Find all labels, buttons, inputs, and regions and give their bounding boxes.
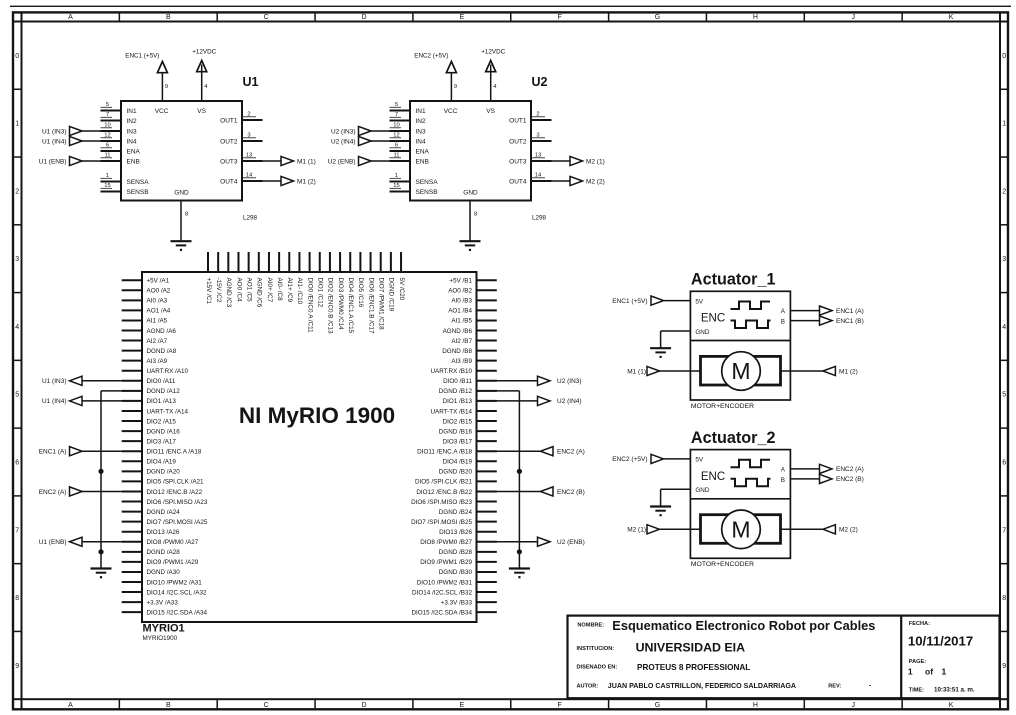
svg-text:+12VDC: +12VDC bbox=[192, 49, 216, 56]
svg-text:IN1: IN1 bbox=[416, 108, 427, 115]
svg-text:+3.3V /A33: +3.3V /A33 bbox=[147, 599, 179, 606]
svg-text:DIO12 /ENC.B /B22: DIO12 /ENC.B /B22 bbox=[416, 489, 472, 496]
svg-text:DIO3 /B17: DIO3 /B17 bbox=[443, 438, 473, 445]
svg-text:5: 5 bbox=[1002, 392, 1006, 399]
svg-text:IN3: IN3 bbox=[127, 128, 138, 135]
svg-text:DIO11 /ENC.A /A18: DIO11 /ENC.A /A18 bbox=[147, 449, 202, 456]
svg-text:K: K bbox=[949, 14, 954, 21]
svg-text:ENA: ENA bbox=[416, 148, 430, 155]
svg-text:IN4: IN4 bbox=[416, 138, 427, 145]
svg-text:AI0 /B3: AI0 /B3 bbox=[451, 298, 472, 305]
svg-text:DIO1 /B13: DIO1 /B13 bbox=[443, 398, 473, 405]
svg-text:DGND /B8: DGND /B8 bbox=[442, 348, 472, 355]
svg-text:of: of bbox=[925, 667, 933, 677]
svg-text:DIO9 /PWM1 /B29: DIO9 /PWM1 /B29 bbox=[420, 559, 472, 566]
svg-text:DGND /A8: DGND /A8 bbox=[147, 348, 177, 355]
svg-text:M2 (2): M2 (2) bbox=[839, 527, 858, 534]
svg-text:9: 9 bbox=[1002, 663, 1006, 670]
svg-text:GND: GND bbox=[695, 487, 709, 494]
svg-text:U1 (ENB): U1 (ENB) bbox=[39, 158, 67, 165]
svg-text:DIO14 /I2C.SCL /B32: DIO14 /I2C.SCL /B32 bbox=[412, 589, 472, 596]
svg-text:3: 3 bbox=[15, 256, 19, 263]
svg-text:OUT2: OUT2 bbox=[220, 138, 238, 145]
svg-text:GND: GND bbox=[695, 329, 709, 336]
svg-text:SENSB: SENSB bbox=[416, 189, 438, 196]
svg-text:DGND /B20: DGND /B20 bbox=[439, 469, 473, 476]
svg-text:DGND /C19: DGND /C19 bbox=[388, 278, 395, 312]
svg-text:Actuator_2: Actuator_2 bbox=[691, 429, 776, 447]
svg-text:AO1 /C5: AO1 /C5 bbox=[245, 278, 252, 303]
svg-text:8: 8 bbox=[1002, 595, 1006, 602]
svg-text:DIO0 /A11: DIO0 /A11 bbox=[147, 378, 176, 385]
svg-text:ENB: ENB bbox=[127, 158, 140, 165]
svg-text:SENSB: SENSB bbox=[127, 189, 149, 196]
svg-text:Esquematico Electronico Robot: Esquematico Electronico Robot por Cables bbox=[612, 618, 875, 633]
svg-text:1: 1 bbox=[942, 667, 947, 677]
svg-text:ENC: ENC bbox=[701, 471, 725, 483]
svg-text:+12VDC: +12VDC bbox=[481, 49, 505, 56]
svg-text:0: 0 bbox=[1002, 53, 1006, 60]
svg-text:MYRIO1: MYRIO1 bbox=[143, 623, 185, 635]
svg-text:AI2 /B7: AI2 /B7 bbox=[451, 338, 472, 345]
svg-text:-15V /C2: -15V /C2 bbox=[215, 278, 222, 303]
svg-text:IN3: IN3 bbox=[416, 128, 427, 135]
svg-text:AI0 /A3: AI0 /A3 bbox=[147, 298, 168, 305]
svg-text:DIO2 /ENC0.B /C13: DIO2 /ENC0.B /C13 bbox=[327, 278, 334, 334]
svg-text:U1: U1 bbox=[243, 75, 259, 89]
svg-text:ENC1 (A): ENC1 (A) bbox=[39, 449, 67, 456]
svg-text:INSTITUCION:: INSTITUCION: bbox=[577, 646, 615, 652]
svg-text:DIO3 /PWM0 /C14: DIO3 /PWM0 /C14 bbox=[337, 278, 344, 331]
svg-text:ENB: ENB bbox=[416, 158, 429, 165]
svg-text:OUT2: OUT2 bbox=[509, 138, 527, 145]
svg-text:DIO8 /PWM0 /B27: DIO8 /PWM0 /B27 bbox=[420, 539, 472, 546]
svg-text:AI2 /A7: AI2 /A7 bbox=[147, 338, 168, 345]
svg-text:8: 8 bbox=[15, 595, 19, 602]
svg-text:DIO2 /B15: DIO2 /B15 bbox=[443, 418, 473, 425]
svg-text:5V: 5V bbox=[695, 298, 704, 305]
svg-text:VS: VS bbox=[486, 108, 495, 115]
svg-text:MOTOR+ENCODER: MOTOR+ENCODER bbox=[691, 403, 754, 410]
svg-text:K: K bbox=[949, 702, 954, 709]
svg-text:AI3 /B9: AI3 /B9 bbox=[451, 358, 472, 365]
svg-text:ENC1 (A): ENC1 (A) bbox=[836, 308, 864, 315]
svg-text:MYRIO1900: MYRIO1900 bbox=[143, 635, 178, 642]
svg-text:SENSA: SENSA bbox=[127, 179, 150, 186]
svg-text:H: H bbox=[753, 702, 758, 709]
svg-text:U2 (IN3): U2 (IN3) bbox=[557, 378, 582, 385]
svg-text:U2 (ENB): U2 (ENB) bbox=[557, 539, 585, 546]
svg-text:NI MyRIO 1900: NI MyRIO 1900 bbox=[239, 403, 395, 428]
svg-text:DIO13 /A26: DIO13 /A26 bbox=[147, 529, 180, 536]
svg-text:U2 (ENB): U2 (ENB) bbox=[328, 158, 356, 165]
svg-text:2: 2 bbox=[1002, 188, 1006, 195]
svg-text:A: A bbox=[68, 702, 73, 709]
svg-text:L298: L298 bbox=[243, 215, 258, 222]
svg-text:AI1 /A5: AI1 /A5 bbox=[147, 318, 168, 325]
svg-text:FECHA:: FECHA: bbox=[909, 621, 930, 627]
svg-text:M1 (1): M1 (1) bbox=[297, 158, 316, 165]
svg-text:DGND /A24: DGND /A24 bbox=[147, 509, 181, 516]
svg-text:DGND /A16: DGND /A16 bbox=[147, 428, 181, 435]
svg-text:DGND /B24: DGND /B24 bbox=[439, 509, 473, 516]
svg-text:M1 (1): M1 (1) bbox=[627, 368, 646, 375]
svg-text:AO1 /B4: AO1 /B4 bbox=[448, 308, 472, 315]
svg-text:DIO6 /ENC1.B /C17: DIO6 /ENC1.B /C17 bbox=[367, 278, 374, 334]
svg-text:ENC1 (+5V): ENC1 (+5V) bbox=[612, 298, 647, 305]
svg-text:DGND /B28: DGND /B28 bbox=[439, 549, 473, 556]
svg-text:5V /C20: 5V /C20 bbox=[398, 278, 405, 301]
svg-text:+5V /B1: +5V /B1 bbox=[449, 278, 472, 285]
svg-text:1: 1 bbox=[908, 667, 913, 677]
svg-text:7: 7 bbox=[15, 527, 19, 534]
svg-text:DIO11 /ENC.A /B18: DIO11 /ENC.A /B18 bbox=[417, 449, 472, 456]
svg-text:AUTOR:: AUTOR: bbox=[577, 684, 599, 690]
svg-text:ENC2 (A): ENC2 (A) bbox=[557, 449, 585, 456]
svg-text:DIO10 /PWM2 /A31: DIO10 /PWM2 /A31 bbox=[147, 579, 203, 586]
svg-text:OUT1: OUT1 bbox=[220, 117, 238, 124]
svg-text:0: 0 bbox=[15, 53, 19, 60]
svg-text:DGND /A12: DGND /A12 bbox=[147, 388, 181, 395]
svg-text:U2 (IN4): U2 (IN4) bbox=[557, 398, 582, 405]
svg-text:OUT3: OUT3 bbox=[509, 158, 527, 165]
svg-text:PROTEUS 8 PROFESSIONAL: PROTEUS 8 PROFESSIONAL bbox=[637, 663, 750, 672]
svg-text:L298: L298 bbox=[532, 215, 547, 222]
svg-text:U2: U2 bbox=[532, 75, 548, 89]
svg-text:8: 8 bbox=[185, 212, 188, 218]
svg-text:DIO12 /ENC.B /A22: DIO12 /ENC.B /A22 bbox=[147, 489, 203, 496]
svg-text:DIO4 /ENC1.A /C15: DIO4 /ENC1.A /C15 bbox=[347, 278, 354, 334]
svg-text:DIO6 /SPI.MISO /A23: DIO6 /SPI.MISO /A23 bbox=[147, 499, 208, 506]
svg-text:J: J bbox=[851, 14, 855, 21]
svg-text:ENC1 (B): ENC1 (B) bbox=[836, 318, 864, 325]
svg-text:VCC: VCC bbox=[155, 108, 169, 115]
svg-text:GND: GND bbox=[174, 190, 189, 197]
svg-text:9: 9 bbox=[15, 663, 19, 670]
svg-text:UART-TX /B14: UART-TX /B14 bbox=[430, 408, 472, 415]
svg-text:DGND /B12: DGND /B12 bbox=[439, 388, 473, 395]
svg-text:AI3 /A9: AI3 /A9 bbox=[147, 358, 168, 365]
svg-text:M2 (2): M2 (2) bbox=[586, 178, 605, 185]
svg-text:9: 9 bbox=[454, 84, 457, 90]
svg-text:G: G bbox=[655, 702, 660, 709]
svg-text:DIO14 /I2C.SCL /A32: DIO14 /I2C.SCL /A32 bbox=[147, 589, 207, 596]
svg-text:OUT3: OUT3 bbox=[220, 158, 238, 165]
svg-text:A: A bbox=[68, 14, 73, 21]
svg-text:ENC2 (B): ENC2 (B) bbox=[557, 489, 585, 496]
svg-text:AGND /C6: AGND /C6 bbox=[256, 278, 263, 308]
svg-text:AO0 /B2: AO0 /B2 bbox=[448, 288, 472, 295]
svg-text:ENC1 (+5V): ENC1 (+5V) bbox=[125, 53, 159, 60]
svg-text:DIO13 /B26: DIO13 /B26 bbox=[439, 529, 472, 536]
svg-text:M2 (1): M2 (1) bbox=[627, 527, 646, 534]
svg-text:4: 4 bbox=[15, 324, 19, 331]
svg-text:OUT1: OUT1 bbox=[509, 117, 527, 124]
svg-text:PAGE:: PAGE: bbox=[909, 659, 926, 665]
svg-text:+15V /C1: +15V /C1 bbox=[205, 278, 212, 305]
svg-text:VS: VS bbox=[197, 108, 206, 115]
svg-text:ENC2 (+5V): ENC2 (+5V) bbox=[612, 456, 647, 463]
svg-text:DIO7 /PWM1 /C18: DIO7 /PWM1 /C18 bbox=[378, 278, 385, 331]
svg-text:J: J bbox=[851, 702, 855, 709]
svg-text:DIO15 /I2C.SDA /B34: DIO15 /I2C.SDA /B34 bbox=[411, 609, 472, 616]
svg-text:7: 7 bbox=[1002, 527, 1006, 534]
svg-text:UNIVERSIDAD EIA: UNIVERSIDAD EIA bbox=[636, 641, 746, 655]
svg-text:DIO15 /I2C.SDA /A34: DIO15 /I2C.SDA /A34 bbox=[147, 609, 208, 616]
svg-text:AGND /A6: AGND /A6 bbox=[147, 328, 177, 335]
svg-text:ENC2 (A): ENC2 (A) bbox=[836, 466, 864, 473]
svg-text:1: 1 bbox=[1002, 121, 1006, 128]
svg-text:GND: GND bbox=[463, 190, 478, 197]
svg-text:M2 (1): M2 (1) bbox=[586, 158, 605, 165]
svg-text:3: 3 bbox=[1002, 256, 1006, 263]
svg-text:ENC2 (A): ENC2 (A) bbox=[39, 489, 67, 496]
svg-text:DIO6 /SPI.MISO /B23: DIO6 /SPI.MISO /B23 bbox=[411, 499, 472, 506]
svg-text:M: M bbox=[731, 517, 750, 543]
svg-text:AI1+ /C9: AI1+ /C9 bbox=[286, 278, 293, 303]
svg-text:ENC: ENC bbox=[701, 313, 725, 325]
svg-text:DGND /A30: DGND /A30 bbox=[147, 569, 181, 576]
svg-text:TIME:: TIME: bbox=[909, 687, 924, 693]
svg-text:M1 (2): M1 (2) bbox=[297, 178, 316, 185]
svg-text:AO1 /A4: AO1 /A4 bbox=[147, 308, 171, 315]
svg-text:DIO1 /C12: DIO1 /C12 bbox=[317, 278, 324, 308]
svg-text:DIO7 /SPI.MOSI /A25: DIO7 /SPI.MOSI /A25 bbox=[147, 519, 208, 526]
svg-text:U1 (IN3): U1 (IN3) bbox=[42, 378, 67, 385]
svg-text:10/11/2017: 10/11/2017 bbox=[908, 633, 973, 648]
svg-text:DIO2 /A15: DIO2 /A15 bbox=[147, 418, 177, 425]
svg-text:U2 (IN4): U2 (IN4) bbox=[331, 138, 356, 145]
svg-text:U1 (ENB): U1 (ENB) bbox=[39, 539, 67, 546]
svg-text:DGND /A28: DGND /A28 bbox=[147, 549, 181, 556]
svg-text:REV:: REV: bbox=[828, 684, 841, 690]
svg-text:D: D bbox=[361, 702, 366, 709]
svg-text:DIO5 /SPI.CLK /B21: DIO5 /SPI.CLK /B21 bbox=[415, 479, 473, 486]
svg-text:OUT4: OUT4 bbox=[220, 178, 238, 185]
svg-text:U1 (IN3): U1 (IN3) bbox=[42, 128, 67, 135]
svg-text:IN2: IN2 bbox=[127, 118, 138, 125]
svg-text:DIO0 /B11: DIO0 /B11 bbox=[443, 378, 472, 385]
svg-text:D: D bbox=[361, 14, 366, 21]
svg-text:NOMBRE:: NOMBRE: bbox=[577, 623, 604, 629]
svg-text:UART-TX /A14: UART-TX /A14 bbox=[147, 408, 189, 415]
svg-text:6: 6 bbox=[15, 460, 19, 467]
svg-text:2: 2 bbox=[15, 188, 19, 195]
svg-text:AO0 /C4: AO0 /C4 bbox=[235, 278, 242, 303]
svg-text:E: E bbox=[459, 14, 464, 21]
svg-text:DIO4 /A19: DIO4 /A19 bbox=[147, 459, 177, 466]
svg-text:4: 4 bbox=[1002, 324, 1006, 331]
svg-text:G: G bbox=[655, 14, 660, 21]
svg-text:DIO9 /PWM1 /A29: DIO9 /PWM1 /A29 bbox=[147, 559, 199, 566]
svg-text:ENA: ENA bbox=[127, 148, 141, 155]
svg-text:MOTOR+ENCODER: MOTOR+ENCODER bbox=[691, 561, 754, 568]
svg-text:M1 (2): M1 (2) bbox=[839, 368, 858, 375]
svg-text:DIO5 /SPI.CLK /A21: DIO5 /SPI.CLK /A21 bbox=[147, 479, 205, 486]
svg-text:ENC2 (B): ENC2 (B) bbox=[836, 476, 864, 483]
svg-text:DIO10 /PWM2 /B31: DIO10 /PWM2 /B31 bbox=[417, 579, 473, 586]
svg-text:U1 (IN4): U1 (IN4) bbox=[42, 138, 67, 145]
svg-text:Actuator_1: Actuator_1 bbox=[691, 271, 776, 289]
svg-text:DIO0 /ENC0.A /C11: DIO0 /ENC0.A /C11 bbox=[306, 278, 313, 334]
svg-text:C: C bbox=[264, 14, 269, 21]
svg-text:+5V /A1: +5V /A1 bbox=[147, 278, 170, 285]
svg-text:+3.3V /B33: +3.3V /B33 bbox=[441, 599, 473, 606]
svg-text:UART.RX /B10: UART.RX /B10 bbox=[430, 368, 472, 375]
svg-text:IN1: IN1 bbox=[127, 108, 138, 115]
svg-text:JUAN PABLO CASTRILLON, FEDERIC: JUAN PABLO CASTRILLON, FEDERICO SALDARRI… bbox=[608, 682, 796, 690]
svg-text:DIO4 /B19: DIO4 /B19 bbox=[443, 459, 473, 466]
svg-text:AI1 /B5: AI1 /B5 bbox=[451, 318, 472, 325]
svg-text:ENC2 (+5V): ENC2 (+5V) bbox=[414, 53, 448, 60]
svg-text:UART.RX /A10: UART.RX /A10 bbox=[147, 368, 189, 375]
svg-text:H: H bbox=[753, 14, 758, 21]
svg-text:10:33:51 a. m.: 10:33:51 a. m. bbox=[934, 686, 975, 693]
svg-text:F: F bbox=[558, 14, 562, 21]
svg-text:DIO7 /SPI.MOSI /B25: DIO7 /SPI.MOSI /B25 bbox=[411, 519, 472, 526]
svg-text:B: B bbox=[166, 14, 171, 21]
svg-text:SENSA: SENSA bbox=[416, 179, 439, 186]
svg-text:M: M bbox=[731, 358, 750, 384]
svg-text:AGND /C3: AGND /C3 bbox=[225, 278, 232, 308]
svg-text:C: C bbox=[264, 702, 269, 709]
svg-text:DIO8 /PWM0 /A27: DIO8 /PWM0 /A27 bbox=[147, 539, 199, 546]
svg-text:B: B bbox=[781, 477, 785, 484]
svg-text:AGND /B6: AGND /B6 bbox=[443, 328, 473, 335]
svg-text:B: B bbox=[166, 702, 171, 709]
svg-text:5V: 5V bbox=[695, 457, 704, 464]
svg-text:DGND /A20: DGND /A20 bbox=[147, 469, 181, 476]
svg-text:AI0- /C8: AI0- /C8 bbox=[276, 278, 283, 302]
svg-text:U1 (IN4): U1 (IN4) bbox=[42, 398, 67, 405]
svg-text:DISENADO EN:: DISENADO EN: bbox=[577, 665, 618, 671]
svg-text:DIO5 /C16: DIO5 /C16 bbox=[357, 278, 364, 308]
svg-text:8: 8 bbox=[474, 212, 477, 218]
svg-text:OUT4: OUT4 bbox=[509, 178, 527, 185]
svg-text:IN4: IN4 bbox=[127, 138, 138, 145]
svg-text:AI0+ /C7: AI0+ /C7 bbox=[266, 278, 273, 303]
svg-text:DGND /B16: DGND /B16 bbox=[439, 428, 473, 435]
svg-text:F: F bbox=[558, 702, 562, 709]
svg-text:DIO3 /A17: DIO3 /A17 bbox=[147, 438, 177, 445]
svg-text:6: 6 bbox=[1002, 460, 1006, 467]
svg-text:AI1- /C10: AI1- /C10 bbox=[296, 278, 303, 305]
svg-text:1: 1 bbox=[15, 121, 19, 128]
svg-text:IN2: IN2 bbox=[416, 118, 427, 125]
svg-text:5: 5 bbox=[15, 392, 19, 399]
svg-text:U2 (IN3): U2 (IN3) bbox=[331, 128, 356, 135]
svg-text:VCC: VCC bbox=[444, 108, 458, 115]
svg-text:E: E bbox=[459, 702, 464, 709]
svg-text:B: B bbox=[781, 319, 785, 326]
svg-text:AO0 /A2: AO0 /A2 bbox=[147, 288, 171, 295]
svg-text:9: 9 bbox=[165, 84, 168, 90]
svg-text:DIO1 /A13: DIO1 /A13 bbox=[147, 398, 177, 405]
svg-text:DGND /B30: DGND /B30 bbox=[439, 569, 473, 576]
